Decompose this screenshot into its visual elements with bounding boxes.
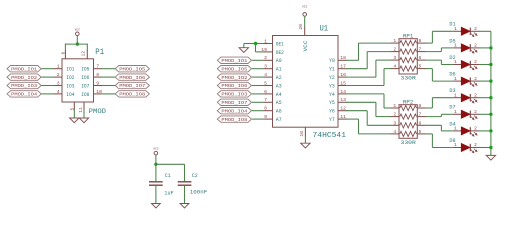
connector P1 body [62, 59, 94, 102]
wire LED D7 cathode to bus [479, 113, 491, 115]
svg-text:18: 18 [340, 55, 346, 61]
wire C1 to ground [155, 186, 157, 204]
wire RP output to LED D5 [417, 48, 453, 52]
svg-text:Y4: Y4 [329, 92, 335, 98]
resistor element RP2.2 zigzag [400, 114, 417, 119]
svg-text:2: 2 [474, 126, 477, 132]
net flag PMOD_IO7 at U1 [217, 99, 251, 106]
wire vcc to U1 pin 20 [304, 16, 306, 35]
net flag PMOD_IO1 at U1 [217, 57, 251, 64]
svg-text:A6: A6 [276, 109, 282, 115]
wire RP output to LED D4 [417, 125, 453, 131]
pin number 11 U1 [340, 114, 346, 120]
pin name Y4 inside U1 [329, 92, 335, 98]
pin number 2 RP2 [393, 112, 396, 118]
svg-text:U1: U1 [320, 23, 329, 33]
pin number 12 U1 [340, 106, 346, 112]
pin 11 wire P1 bottom [83, 102, 85, 118]
pin number 1 of D1 [454, 26, 457, 32]
pin number 1 of D8 [454, 142, 457, 148]
pin number 2 RP1 [393, 47, 396, 53]
wire LED D3 cathode to bus [479, 97, 491, 99]
svg-text:7: 7 [264, 97, 267, 103]
svg-text:Y2: Y2 [329, 75, 335, 81]
svg-text:10: 10 [96, 89, 102, 95]
svg-text:PMOD_IO3: PMOD_IO3 [11, 83, 37, 89]
svg-text:PMOD_IO6: PMOD_IO6 [119, 75, 145, 81]
resistor network RP2 body [399, 105, 417, 139]
wire LED D4 cathode to bus [479, 130, 491, 132]
refdes D5 [449, 38, 455, 44]
svg-text:2: 2 [474, 59, 477, 65]
wire vcc to junction (P1) [76, 36, 78, 45]
net flag PMOD_IO3 at U1 [217, 91, 251, 98]
pin 6 wire U1 A4 [252, 93, 273, 95]
svg-text:2: 2 [474, 92, 477, 98]
svg-text:2: 2 [474, 142, 477, 148]
svg-text:10: 10 [299, 131, 305, 137]
pin number 10 P1 [96, 89, 102, 95]
refdes C2 [192, 173, 198, 179]
svg-text:1: 1 [264, 38, 267, 44]
svg-text:11: 11 [340, 114, 346, 120]
node junction bus at LED row 7 [489, 129, 492, 132]
pin number 6 RP1 [419, 55, 422, 61]
svg-text:1: 1 [454, 59, 457, 65]
pin 5 wire U1 A3 [252, 85, 273, 87]
svg-text:OE2: OE2 [276, 50, 284, 56]
svg-text:1: 1 [454, 126, 457, 132]
pin number 10 U1 [299, 131, 305, 137]
net flag PMOD_IO4 [7, 91, 41, 98]
net flag PMOD_IO8 [115, 91, 149, 98]
svg-text:2: 2 [474, 76, 477, 82]
pin number 5 U1 [264, 80, 267, 86]
pin names IO4 IO8 inside P1 [66, 92, 89, 98]
pin number 5 RP1 [419, 64, 422, 70]
svg-text:PMOD_IO5: PMOD_IO5 [221, 66, 247, 72]
pin number 15 U1 [340, 80, 346, 86]
value 330R of RP2 [401, 140, 417, 146]
svg-text:2: 2 [393, 47, 396, 53]
pin name A3 inside U1 [276, 83, 282, 89]
pin number 4 RP1 [393, 64, 396, 70]
svg-text:3: 3 [393, 55, 396, 61]
refdes D4 [449, 121, 455, 127]
ground symbol U1 pin10 [301, 143, 310, 148]
led D6 [453, 77, 480, 86]
svg-text:2: 2 [474, 109, 477, 115]
pin number 2 of D5 [474, 43, 477, 49]
svg-text:11: 11 [78, 107, 84, 113]
svg-text:A4: A4 [276, 92, 282, 98]
svg-text:PMOD_IO2: PMOD_IO2 [221, 75, 247, 81]
pin number 2 P1 [57, 72, 60, 78]
pin number 9 P1 [96, 80, 99, 86]
pin 13 wire U1 Y5 [338, 101, 347, 103]
node junction bus at LED row 2 [489, 46, 492, 49]
svg-text:2: 2 [57, 72, 60, 78]
svg-text:Y3: Y3 [329, 83, 335, 89]
wire Y4 to RP2 pin 1 [346, 94, 399, 108]
svg-text:P1: P1 [95, 47, 104, 57]
svg-text:PMOD_IO3: PMOD_IO3 [221, 92, 247, 98]
svg-text:2: 2 [264, 55, 267, 61]
led D8 [453, 144, 480, 153]
pin number 5 RP2 [419, 129, 422, 135]
pin name A6 inside U1 [276, 109, 282, 115]
wire RP output to LED D1 [417, 31, 453, 43]
pin 1 wire P1 left [41, 68, 62, 70]
wire LED D6 cathode to bus [479, 80, 491, 82]
wire junction to C2 [156, 164, 185, 181]
pin number 3 P1 [57, 80, 60, 86]
svg-text:5: 5 [70, 108, 76, 111]
refdes RP2 [403, 99, 414, 105]
net flag PMOD_IO3 [7, 82, 41, 89]
wire Y5 to RP2 pin 2 [346, 102, 399, 116]
pin 17 wire U1 Y1 [338, 68, 347, 70]
pin 6 label P1 [61, 52, 67, 55]
wire LED D5 cathode to bus [479, 47, 491, 49]
svg-text:IO1: IO1 [66, 67, 74, 73]
net flag PMOD_IO6 [115, 74, 149, 81]
power flag VCC (P1) [75, 29, 81, 36]
wire Y6 to RP2 pin 3 [346, 111, 399, 126]
pin number 4 RP2 [393, 129, 396, 135]
node junction bus at LED row 5 [489, 96, 492, 99]
pin number 16 U1 [340, 72, 346, 78]
svg-text:IO5: IO5 [81, 67, 89, 73]
pin 18 wire U1 Y0 [338, 59, 347, 61]
svg-text:1: 1 [454, 43, 457, 49]
pin number 1 U1 [264, 38, 267, 44]
svg-text:PMOD_IO4: PMOD_IO4 [11, 92, 37, 98]
pin number 1 of D2 [454, 59, 457, 65]
pin number 2 of D1 [474, 26, 477, 32]
pin number 1 RP2 [393, 103, 396, 109]
pin 5 wire P1 bottom [73, 102, 75, 118]
svg-text:IO3: IO3 [66, 83, 74, 89]
pin 2 wire U1 A0 [252, 59, 273, 61]
power flag VCC (U1) [302, 5, 308, 16]
pin number 1 of D6 [454, 76, 457, 82]
pin number 8 U1 [264, 106, 267, 112]
pin number 7 U1 [264, 97, 267, 103]
svg-text:4: 4 [57, 89, 60, 95]
wire LED D1 cathode to bus [479, 30, 491, 32]
pin name Y1 inside U1 [329, 67, 335, 73]
svg-text:PMOD_IO7: PMOD_IO7 [119, 83, 145, 89]
svg-text:1: 1 [454, 26, 457, 32]
power flag VCC (C1) [153, 148, 159, 155]
pin 2 wire P1 left [41, 76, 62, 78]
refdes D1 [449, 22, 455, 28]
pin name Y0 inside U1 [329, 58, 335, 64]
pin number 4 U1 [264, 72, 267, 78]
svg-text:PMOD_IO2: PMOD_IO2 [11, 75, 37, 81]
resistor element RP2.3 zigzag [400, 123, 417, 128]
pin number 13 U1 [340, 97, 346, 103]
svg-text:A5: A5 [276, 100, 282, 106]
svg-text:A7: A7 [276, 117, 282, 123]
wire RP output to LED D7 [417, 114, 453, 116]
pin 7 wire P1 right [94, 68, 116, 70]
pin 3 wire P1 left [41, 85, 62, 87]
svg-text:PMOD: PMOD [89, 108, 107, 115]
svg-text:PMOD_IO8: PMOD_IO8 [221, 117, 247, 123]
net flag PMOD_IO5 [115, 66, 149, 73]
pin names IO3 IO7 inside P1 [66, 83, 89, 89]
capacitor C2 [178, 182, 192, 185]
pin number 7 P1 [96, 64, 99, 70]
refdes C1 [165, 173, 171, 179]
pin number 1 RP1 [393, 38, 396, 44]
pin number 20 U1 [298, 24, 304, 30]
svg-text:Y6: Y6 [329, 109, 335, 115]
capacitor C1 [149, 182, 163, 185]
wire RP output to LED D3 [417, 98, 453, 108]
resistor element RP1.2 zigzag [400, 49, 417, 54]
svg-text:IO7: IO7 [81, 83, 89, 89]
svg-text:IO8: IO8 [81, 92, 89, 98]
node junction bus at LED row 6 [489, 113, 492, 116]
pin name A5 inside U1 [276, 100, 282, 106]
net flag PMOD_IO2 at U1 [217, 74, 251, 81]
pin 11 label P1 [78, 107, 84, 113]
svg-text:RP1: RP1 [403, 33, 414, 39]
pin number 2 of D3 [474, 92, 477, 98]
svg-text:19: 19 [261, 47, 267, 53]
pin number 1 P1 [57, 64, 60, 70]
pin number 1 of D4 [454, 126, 457, 132]
pin 7 wire U1 A5 [252, 101, 273, 103]
resistor element RP2.1 zigzag [400, 105, 417, 110]
net flag PMOD_IO8 at U1 [217, 116, 251, 123]
wire OE2 to junction [256, 44, 273, 52]
svg-text:1: 1 [454, 76, 457, 82]
node junction OE1 OE2 [254, 42, 257, 45]
net flag PMOD_IO7 [115, 82, 149, 89]
svg-text:14: 14 [340, 89, 346, 95]
svg-text:3: 3 [57, 80, 60, 86]
wire vcc bus to P1 pins 6 and 12 [65, 44, 88, 59]
svg-text:1: 1 [454, 92, 457, 98]
pin name OE2 inside U1 [276, 50, 284, 56]
pin name A0 inside U1 [276, 58, 282, 64]
pin name Y5 inside U1 [329, 100, 335, 106]
pin number 2 of D4 [474, 126, 477, 132]
pin name A7 inside U1 [276, 117, 282, 123]
pin 5 label P1 [70, 108, 76, 111]
pin 4 wire U1 A2 [252, 76, 273, 78]
svg-text:9: 9 [96, 80, 99, 86]
wire RP output to LED D6 [417, 69, 453, 82]
wire OE1 to ground [244, 43, 273, 45]
pin 9 wire U1 A7 [252, 118, 273, 120]
svg-text:1: 1 [454, 142, 457, 148]
ground symbol C1 [152, 204, 161, 209]
svg-text:12: 12 [81, 51, 87, 57]
svg-text:PMOD_IO7: PMOD_IO7 [221, 100, 247, 106]
svg-text:4: 4 [393, 129, 396, 135]
refdes P1 [95, 47, 104, 57]
pin 8 wire U1 A6 [252, 110, 273, 112]
ic U1 74HC541 body [273, 36, 339, 128]
pin number 8 RP1 [419, 38, 422, 44]
svg-text:74HC541: 74HC541 [313, 132, 347, 140]
node junction bus at LED row 3 [489, 63, 492, 66]
pin name Y3 inside U1 [329, 83, 335, 89]
value 1uF [164, 190, 173, 196]
pin name A1 inside U1 [276, 67, 282, 73]
svg-text:17: 17 [340, 64, 346, 70]
wire Y3 to RP1 pin 4 [346, 69, 399, 86]
svg-text:Y5: Y5 [329, 100, 335, 106]
pin number 6 U1 [264, 89, 267, 95]
resistor element RP1.3 zigzag [400, 58, 417, 63]
wire junction to C1 [155, 164, 157, 181]
svg-text:A1: A1 [276, 67, 282, 73]
svg-text:Y7: Y7 [329, 117, 335, 123]
svg-text:Y0: Y0 [329, 58, 335, 64]
pin name Y6 inside U1 [329, 109, 335, 115]
svg-text:3: 3 [264, 64, 267, 70]
svg-text:7: 7 [96, 64, 99, 70]
svg-text:1: 1 [57, 64, 60, 70]
svg-text:VCC: VCC [303, 41, 309, 52]
svg-text:A3: A3 [276, 83, 282, 89]
pin name A2 inside U1 [276, 75, 282, 81]
svg-text:330R: 330R [401, 140, 417, 146]
svg-text:PMOD_IO6: PMOD_IO6 [221, 83, 247, 89]
pin number 14 U1 [340, 89, 346, 95]
led D4 [453, 127, 480, 136]
pin number 17 U1 [340, 64, 346, 70]
node junction C1 C2 [154, 163, 157, 166]
svg-text:IO4: IO4 [66, 92, 74, 98]
wire LED cathode bus vertical [490, 31, 492, 155]
svg-text:20: 20 [298, 24, 304, 30]
svg-text:OE1: OE1 [276, 41, 284, 47]
node junction bus at LED row 4 [489, 79, 492, 82]
pin number 7 RP2 [419, 112, 422, 118]
wire RP output to LED D8 [417, 134, 453, 148]
svg-text:vcc: vcc [302, 5, 308, 9]
svg-text:IO2: IO2 [66, 75, 74, 81]
svg-text:PMOD_IO5: PMOD_IO5 [119, 66, 145, 72]
pin name OE1 inside U1 [276, 41, 284, 47]
refdes D2 [449, 55, 455, 61]
wire Y0 to RP1 pin 1 [346, 43, 399, 60]
value PMOD label [89, 108, 107, 115]
pin 9 wire P1 right [94, 85, 116, 87]
ground symbol LED bus [486, 155, 495, 160]
pin 12 wire U1 Y6 [338, 110, 347, 112]
resistor network RP1 body [399, 39, 417, 74]
svg-text:PMOD_IO4: PMOD_IO4 [221, 108, 247, 114]
pin number 2 U1 [264, 55, 267, 61]
svg-text:5: 5 [264, 80, 267, 86]
net flag PMOD_IO2 [7, 74, 41, 81]
pin 4 wire P1 left [41, 93, 62, 95]
svg-text:A0: A0 [276, 58, 282, 64]
wire C2 to ground [184, 186, 186, 204]
led D3 [453, 94, 480, 103]
wire Y1 to RP1 pin 2 [346, 52, 399, 69]
svg-text:C2: C2 [192, 173, 198, 179]
pin number 2 of D8 [474, 142, 477, 148]
value 74HC541 [313, 132, 347, 140]
svg-text:1: 1 [454, 109, 457, 115]
refdes D3 [449, 88, 455, 94]
pin 16 wire U1 Y2 [338, 76, 347, 78]
pin 15 wire U1 Y3 [338, 85, 347, 87]
wire LED D8 cathode to bus [479, 147, 491, 149]
pin name VCC inside U1 [303, 41, 309, 52]
pin 8 wire P1 right [94, 76, 116, 78]
pin number 8 RP2 [419, 103, 422, 109]
pin number 2 of D7 [474, 109, 477, 115]
svg-text:8: 8 [96, 72, 99, 78]
net flag PMOD_IO1 [7, 66, 41, 73]
refdes RP1 [403, 33, 414, 39]
pin 11 wire U1 Y7 [338, 118, 347, 120]
pin names IO1 IO5 inside P1 [66, 67, 89, 73]
pin 3 wire U1 A1 [252, 68, 273, 70]
value 330R of RP1 [401, 76, 417, 82]
svg-text:Y1: Y1 [329, 67, 335, 73]
svg-text:2: 2 [474, 43, 477, 49]
net flag PMOD_IO4 at U1 [217, 108, 251, 115]
svg-text:PMOD_IO1: PMOD_IO1 [221, 58, 247, 64]
wire Y7 to RP2 pin 4 [346, 119, 399, 134]
pin number 2 of D2 [474, 59, 477, 65]
resistor element RP1.4 zigzag [400, 66, 417, 71]
ground symbol C2 [180, 204, 189, 209]
node junction bus at LED row 8 [489, 146, 492, 149]
pin 14 wire U1 Y4 [338, 93, 347, 95]
wire RP output to LED D2 [417, 60, 453, 64]
svg-text:4: 4 [393, 64, 396, 70]
svg-text:3: 3 [393, 120, 396, 126]
svg-text:A2: A2 [276, 75, 282, 81]
refdes U1 [320, 23, 329, 33]
pin names IO2 IO6 inside P1 [66, 75, 89, 81]
svg-text:IO6: IO6 [81, 75, 89, 81]
pin name Y2 inside U1 [329, 75, 335, 81]
svg-text:330R: 330R [401, 76, 417, 82]
led D2 [453, 61, 480, 70]
pin name Y7 inside U1 [329, 117, 335, 123]
pin number 9 U1 [264, 114, 267, 120]
pin number 7 RP1 [419, 47, 422, 53]
pin number 2 of D6 [474, 76, 477, 82]
svg-text:1: 1 [393, 103, 396, 109]
resistor element RP1.1 zigzag [400, 41, 417, 46]
wire Y2 to RP1 pin 3 [346, 60, 399, 77]
pin 12 label P1 [81, 51, 87, 57]
pin number 18 U1 [340, 55, 346, 61]
svg-text:9: 9 [264, 114, 267, 120]
svg-text:4: 4 [264, 72, 267, 78]
svg-text:12: 12 [340, 106, 346, 112]
pin number 1 of D7 [454, 109, 457, 115]
node junction vcc P1 [76, 42, 79, 45]
refdes D7 [449, 105, 455, 111]
pin number 3 U1 [264, 64, 267, 70]
svg-text:2: 2 [474, 26, 477, 32]
